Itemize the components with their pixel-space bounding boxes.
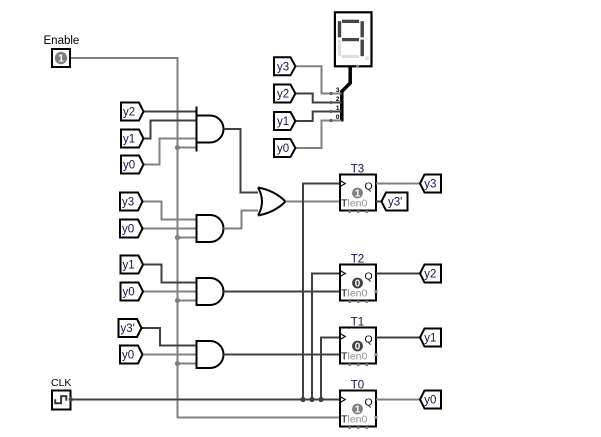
tunnel y3 second	[120, 193, 143, 211]
flip-flop T2	[340, 254, 378, 304]
svg-text:len0: len0	[348, 198, 368, 210]
svg-text:Q: Q	[365, 271, 373, 283]
wire y3' to AND4	[142, 328, 197, 346]
wire CLK riser to T2	[312, 274, 340, 400]
svg-text:y0: y0	[277, 143, 289, 155]
wire T1 Q to y1	[376, 337, 420, 339]
node junction Enable to AND3	[175, 298, 197, 303]
tunnel y1 second	[121, 256, 144, 274]
tunnel y2 out	[420, 265, 441, 283]
wire y0 to AND4	[143, 354, 197, 356]
svg-text:y3: y3	[424, 179, 436, 191]
wire T3 Qn to y3'	[376, 201, 382, 203]
svg-text:y1: y1	[123, 260, 135, 272]
tunnel y1	[121, 130, 144, 148]
tunnel y3'	[119, 319, 142, 337]
tunnel y3' out	[382, 193, 408, 211]
wire y0 to splitter bit0	[295, 121, 331, 149]
tunnel y2 splitter	[274, 85, 295, 103]
tunnel y0 second	[120, 220, 143, 238]
hex display U1	[335, 12, 372, 68]
svg-text:len0: len0	[348, 351, 368, 363]
svg-text:y1: y1	[424, 333, 436, 345]
splitter SP1	[329, 67, 350, 123]
svg-text:y1: y1	[277, 116, 289, 128]
wire y0 to AND2	[143, 228, 197, 230]
node junction CLK T3	[300, 397, 305, 402]
input pin CLK	[51, 377, 73, 410]
node junction Enable to AND4	[175, 361, 197, 366]
and-gate AND4	[197, 341, 224, 368]
node junction CLK T2	[309, 397, 314, 402]
wire y0 to AND1	[144, 139, 197, 165]
svg-text:y0: y0	[123, 287, 135, 299]
tunnel y0 fourth	[120, 346, 143, 364]
svg-text:y3': y3'	[388, 197, 402, 209]
svg-text:0: 0	[336, 114, 340, 121]
svg-text:y0: y0	[123, 160, 135, 172]
svg-text:y1: y1	[123, 134, 135, 146]
wire CLK riser to T3	[303, 184, 340, 400]
wire y2 to AND1	[144, 111, 197, 113]
wire y3 to splitter bit3	[295, 66, 331, 93]
node junction CLK T1	[318, 397, 323, 402]
flip-flop T0	[340, 380, 378, 430]
svg-text:1: 1	[58, 54, 64, 65]
svg-text:y0: y0	[424, 395, 436, 407]
tunnel y1 splitter	[274, 112, 295, 130]
tunnel y0 third	[121, 283, 144, 301]
node junction Enable to AND1	[175, 145, 197, 150]
tunnel y0 splitter	[274, 139, 295, 157]
wire CLK riser to T1	[321, 338, 340, 400]
wire y1 to AND3	[143, 265, 197, 283]
wire y2 to splitter bit2	[295, 94, 331, 103]
tunnel y3 out	[420, 175, 441, 193]
svg-text:3: 3	[336, 87, 340, 94]
svg-text:Q: Q	[365, 181, 373, 193]
svg-text:y2: y2	[277, 89, 289, 101]
and-gate AND1	[197, 107, 224, 152]
wire CLK main	[71, 399, 341, 401]
wire Enable net	[70, 58, 340, 418]
wire AND3 out to T2	[224, 291, 341, 293]
svg-text:len0: len0	[348, 414, 368, 426]
svg-text:y2: y2	[424, 269, 436, 281]
svg-text:1: 1	[336, 105, 340, 112]
input pin Enable	[44, 35, 80, 67]
svg-text:len0: len0	[348, 288, 368, 300]
wire T3 Q to y3	[376, 183, 420, 185]
svg-text:y0: y0	[122, 224, 134, 236]
tunnel y0 first	[121, 156, 144, 174]
svg-text:Q: Q	[365, 397, 373, 409]
wire T0 Q to y0	[376, 399, 420, 401]
wire OR out to T3	[286, 201, 341, 203]
svg-text:y3: y3	[277, 61, 289, 73]
wire AND1 out to OR	[224, 129, 262, 193]
svg-text:CLK: CLK	[51, 377, 71, 389]
svg-text:y2: y2	[123, 107, 135, 119]
wire AND4 out to T1	[224, 354, 341, 356]
and-gate AND2	[197, 215, 224, 242]
svg-text:Q: Q	[365, 334, 373, 346]
wire y3 to AND2	[143, 202, 197, 220]
or-gate OR1	[258, 188, 286, 216]
wire T2 Q to y2	[376, 273, 420, 275]
tunnel y1 out	[420, 329, 441, 347]
svg-text:y0: y0	[122, 350, 134, 362]
tunnel y0 out	[420, 391, 441, 409]
wire AND2 out to OR	[224, 211, 262, 229]
wire y1 to splitter bit1	[295, 112, 331, 122]
wire y1 to AND1	[144, 121, 197, 139]
wire y0 to AND3	[143, 291, 197, 293]
and-gate AND3	[197, 278, 224, 305]
flip-flop T1	[340, 317, 378, 367]
flip-flop T3	[340, 164, 376, 214]
svg-text:Enable: Enable	[44, 35, 80, 47]
svg-text:y3: y3	[122, 197, 134, 209]
tunnel y3 splitter	[274, 57, 295, 75]
node junction Enable to AND2	[175, 235, 197, 240]
svg-text:y3': y3'	[121, 323, 135, 335]
svg-text:2: 2	[336, 96, 340, 103]
tunnel y2	[121, 103, 144, 121]
